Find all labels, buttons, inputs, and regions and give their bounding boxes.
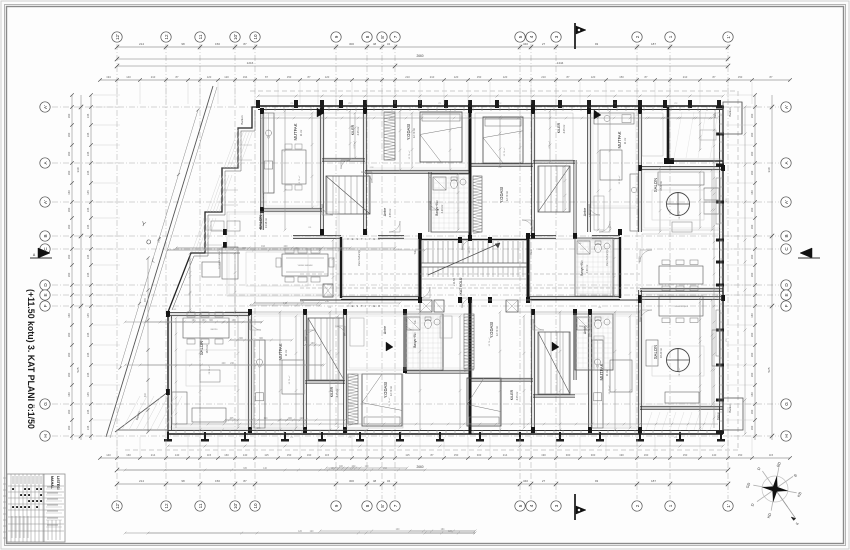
balcony hatch step3 bbox=[192, 218, 216, 252]
chandelier bottom-right salon bbox=[667, 349, 690, 372]
rug top-left salon bbox=[246, 252, 308, 286]
svg-text:160: 160 bbox=[750, 151, 754, 156]
wardrobe bottom-left bedroom bbox=[348, 374, 358, 424]
svg-text:4: 4 bbox=[529, 35, 534, 38]
svg-text:160: 160 bbox=[644, 453, 649, 457]
left apartment salon walls top bbox=[205, 252, 240, 254]
grid bubble A' right bbox=[781, 197, 791, 207]
bed bottom bedroom 2 bbox=[467, 378, 501, 426]
svg-text:4.55 m²: 4.55 m² bbox=[588, 208, 592, 217]
svg-text:4.05 m²: 4.05 m² bbox=[562, 124, 566, 133]
svg-text:5: 5 bbox=[518, 504, 523, 507]
svg-text:9: 9 bbox=[334, 504, 339, 507]
svg-text:G: G bbox=[43, 402, 48, 406]
grid bubble A right bbox=[781, 158, 791, 168]
second room insets bbox=[172, 115, 719, 426]
svg-text:190: 190 bbox=[307, 453, 312, 457]
door swing flag 3 bbox=[386, 342, 393, 351]
svg-text:160: 160 bbox=[67, 190, 71, 195]
grid bubble F left bbox=[40, 301, 50, 311]
svg-text:KILER: KILER bbox=[557, 122, 561, 133]
svg-text:28.50 m²: 28.50 m² bbox=[208, 365, 211, 374]
kitchen counter top-left bbox=[263, 113, 274, 193]
svg-text:A': A' bbox=[43, 200, 48, 204]
svg-text:190: 190 bbox=[541, 453, 546, 457]
svg-text:KILER: KILER bbox=[330, 386, 334, 397]
svg-text:300: 300 bbox=[477, 453, 482, 457]
window sill ticks bottom wall bbox=[175, 430, 177, 434]
svg-text:12: 12 bbox=[164, 34, 169, 40]
svg-text:3: 3 bbox=[554, 504, 559, 507]
rug bottom-left salon bbox=[186, 350, 238, 386]
wall x322 bbox=[320, 111, 322, 232]
svg-text:93: 93 bbox=[595, 479, 599, 483]
exterior wall along road stepped bbox=[168, 107, 258, 312]
mutfak right extra cabinets bbox=[594, 196, 604, 230]
wall x305 bottom bbox=[303, 312, 305, 430]
svg-text:160: 160 bbox=[750, 272, 754, 277]
right extension lines bbox=[726, 95, 753, 436]
svg-text:160: 160 bbox=[126, 453, 131, 457]
svg-text:48: 48 bbox=[373, 42, 377, 46]
grid bubble A left bbox=[40, 158, 50, 168]
svg-text:145: 145 bbox=[86, 352, 90, 357]
svg-text:150: 150 bbox=[287, 453, 292, 457]
right wall piers bbox=[716, 106, 724, 109]
svg-text:1216: 1216 bbox=[247, 61, 254, 65]
svg-text:Y.ODASI: Y.ODASI bbox=[383, 382, 388, 398]
svg-text:187: 187 bbox=[651, 479, 656, 483]
column markers bbox=[320, 229, 324, 235]
top dimension line 2 overall bbox=[117, 58, 728, 60]
svg-text:145: 145 bbox=[86, 132, 90, 137]
wall x250 bottom bbox=[248, 312, 250, 430]
sofa top-right salon bbox=[658, 172, 704, 185]
bath tiles bottom-right bbox=[576, 316, 612, 368]
shaft box left corridor bbox=[323, 284, 333, 297]
sofa bottom-right salon bbox=[712, 330, 720, 366]
svg-text:4.05 m²: 4.05 m² bbox=[515, 391, 519, 400]
eave dashed outline bbox=[250, 90, 738, 92]
svg-text:330: 330 bbox=[767, 167, 771, 172]
svg-text:Banyo+Wc: Banyo+Wc bbox=[435, 200, 439, 216]
svg-text:160: 160 bbox=[67, 313, 71, 318]
grid bubble D right bbox=[781, 280, 791, 290]
svg-text:1': 1' bbox=[726, 504, 731, 508]
grid bubble 5 bottom bbox=[515, 501, 525, 511]
svg-text:145: 145 bbox=[86, 254, 90, 259]
chandelier top-right salon bbox=[667, 193, 690, 216]
wall x640 top bbox=[638, 111, 640, 168]
right wall interior furniture bbox=[716, 178, 720, 224]
wall x533 bottom bbox=[531, 312, 533, 430]
shaft boxes next to core bbox=[420, 300, 432, 312]
svg-text:28.50 m²: 28.50 m² bbox=[678, 367, 681, 376]
window dim line below bottom wall bbox=[168, 445, 723, 447]
svg-text:4.05 m²: 4.05 m² bbox=[353, 141, 356, 149]
svg-text:150: 150 bbox=[738, 75, 743, 79]
svg-text:10: 10 bbox=[253, 503, 258, 509]
svg-text:H: H bbox=[43, 434, 48, 437]
svg-text:2: 2 bbox=[635, 504, 640, 507]
svg-text:525: 525 bbox=[767, 367, 771, 372]
wall x443 bath split bbox=[442, 314, 444, 370]
grid bubble C left bbox=[40, 244, 50, 254]
grid bubble 1 top bbox=[665, 32, 675, 42]
svg-text:B: B bbox=[784, 234, 789, 237]
svg-text:300: 300 bbox=[349, 42, 354, 46]
extra interior dim strings bbox=[145, 321, 262, 323]
svg-text:3: 3 bbox=[554, 35, 559, 38]
svg-text:Balkon: Balkon bbox=[716, 411, 720, 419]
top dimension line 1 bbox=[117, 46, 728, 48]
section flag bottom bbox=[574, 494, 576, 520]
svg-text:Balkon: Balkon bbox=[728, 107, 732, 117]
svg-text:87: 87 bbox=[308, 75, 311, 79]
svg-text:G: G bbox=[784, 402, 789, 406]
exterior wall right bbox=[722, 106, 724, 434]
kitchen table top-left bbox=[282, 150, 306, 184]
svg-text:160: 160 bbox=[67, 132, 71, 137]
window dim line right of right wall bbox=[744, 107, 746, 434]
svg-text:28.50 m²: 28.50 m² bbox=[678, 210, 681, 219]
grid bubble 12' bottom bbox=[112, 501, 122, 511]
svg-text:194: 194 bbox=[243, 75, 248, 79]
kat holu corridor lines bbox=[300, 273, 640, 275]
bottom dimension line 2 overall bbox=[117, 469, 728, 471]
grid bubble D left bbox=[40, 280, 50, 290]
wardrobe top-right bedroom bbox=[473, 176, 482, 232]
bath tiles top-right bbox=[576, 240, 612, 294]
svg-text:190: 190 bbox=[619, 453, 624, 457]
stair core walls bbox=[419, 238, 422, 300]
svg-text:34: 34 bbox=[387, 42, 391, 46]
svg-text:160: 160 bbox=[67, 170, 71, 175]
svg-text:8': 8' bbox=[380, 35, 385, 39]
svg-text:Balkon: Balkon bbox=[240, 115, 244, 125]
svg-text:Y.ODASI: Y.ODASI bbox=[489, 322, 494, 338]
svg-text:115: 115 bbox=[207, 453, 212, 457]
svg-text:27: 27 bbox=[542, 479, 546, 483]
svg-text:150: 150 bbox=[215, 42, 220, 46]
compass rose bbox=[753, 467, 796, 520]
svg-text:12.70 m²: 12.70 m² bbox=[488, 337, 491, 346]
svg-text:160: 160 bbox=[67, 254, 71, 259]
wall y390 kiler-stair bottom bbox=[305, 380, 345, 382]
svg-text:160: 160 bbox=[67, 113, 71, 118]
svg-text:1: 1 bbox=[668, 504, 673, 507]
corridor top wall y237 left bbox=[293, 235, 341, 237]
left extension lines bbox=[93, 95, 120, 436]
svg-text:18.5 m²: 18.5 m² bbox=[205, 344, 209, 353]
window sill ticks top wall bbox=[265, 107, 267, 111]
corridor bottom walls y298 bbox=[341, 296, 420, 298]
grid bubble A' left bbox=[40, 102, 50, 112]
grid bubble 7 top bbox=[390, 32, 400, 42]
svg-text:11 m²: 11 m² bbox=[284, 350, 288, 357]
grid bubble 1' bottom bbox=[723, 501, 733, 511]
vertical grid axes bbox=[117, 44, 728, 499]
stair bottom-left apartment bbox=[309, 318, 339, 380]
svg-text:145: 145 bbox=[86, 372, 90, 377]
grid bubble 4 bottom bbox=[526, 501, 536, 511]
svg-text:13.38 m²: 13.38 m² bbox=[264, 218, 268, 228]
door swing flag 4 bbox=[552, 342, 559, 351]
svg-text:F: F bbox=[43, 304, 48, 307]
balcony hatch top-left bbox=[224, 130, 253, 168]
top dimension line 3 bbox=[117, 65, 728, 67]
svg-text:120/220: 120/220 bbox=[263, 190, 265, 199]
svg-text:11 m²: 11 m² bbox=[605, 370, 609, 377]
svg-text:A': A' bbox=[784, 105, 789, 109]
svg-text:87: 87 bbox=[567, 75, 570, 79]
svg-text:160: 160 bbox=[67, 409, 71, 414]
svg-text:160: 160 bbox=[750, 190, 754, 195]
wardrobe bottom-right bedroom bbox=[464, 314, 474, 369]
coffee table bottom-left salon bbox=[200, 370, 220, 382]
svg-text:330: 330 bbox=[76, 167, 80, 172]
svg-text:87: 87 bbox=[243, 479, 247, 483]
svg-text:Balkon: Balkon bbox=[728, 403, 732, 413]
bed bottom bedroom 1 bbox=[362, 374, 402, 426]
svg-text:210: 210 bbox=[151, 75, 156, 79]
grid bubble 7 bottom bbox=[390, 501, 400, 511]
svg-text:160: 160 bbox=[750, 207, 754, 212]
door swing flag 1 bbox=[317, 108, 324, 117]
grid bubble 8' bottom bbox=[377, 501, 387, 511]
stair up arrow diagonal bbox=[428, 243, 500, 275]
svg-text:B: B bbox=[43, 234, 48, 237]
stair treads lower flight bbox=[423, 267, 523, 277]
svg-text:525: 525 bbox=[76, 367, 80, 372]
grid bubble 8' top bbox=[377, 32, 387, 42]
svg-text:115: 115 bbox=[325, 453, 330, 457]
svg-text:145: 145 bbox=[86, 151, 90, 156]
balcony hatch step2 bbox=[207, 175, 232, 212]
svg-text:145: 145 bbox=[86, 190, 90, 195]
wall x590 bottom bbox=[588, 312, 590, 430]
room finish insets bbox=[170, 113, 721, 428]
grid bubble F right bbox=[781, 301, 791, 311]
svg-text:160: 160 bbox=[750, 425, 754, 430]
svg-text:140: 140 bbox=[126, 75, 131, 79]
bathroom bottom-left unit bbox=[407, 317, 420, 330]
svg-text:12.70 m²: 12.70 m² bbox=[388, 397, 391, 406]
grid bubble 9 bottom bbox=[331, 501, 341, 511]
grid bubble A' left bbox=[40, 197, 50, 207]
interior dim string inside right wall bbox=[713, 114, 715, 428]
svg-text:160: 160 bbox=[750, 352, 754, 357]
svg-text:145: 145 bbox=[86, 224, 90, 229]
svg-text:145: 145 bbox=[86, 332, 90, 337]
wall x533 bbox=[531, 111, 533, 238]
svg-text:210: 210 bbox=[683, 75, 688, 79]
svg-text:214: 214 bbox=[503, 453, 508, 457]
svg-text:4.55 m²: 4.55 m² bbox=[388, 208, 392, 217]
svg-text:1': 1' bbox=[726, 35, 731, 39]
svg-text:11 m²: 11 m² bbox=[623, 138, 627, 145]
right dimension lines bbox=[754, 95, 756, 440]
svg-text:OTURMA KÖŞESİ: OTURMA KÖŞESİ bbox=[218, 251, 221, 270]
svg-text:8: 8 bbox=[365, 35, 370, 38]
svg-text:12.70 m²: 12.70 m² bbox=[495, 326, 499, 336]
svg-text:18.20 m²: 18.20 m² bbox=[659, 348, 663, 358]
svg-text:87: 87 bbox=[770, 75, 773, 79]
grid bubble 8 top bbox=[362, 32, 372, 42]
svg-text:145: 145 bbox=[86, 313, 90, 318]
corridor mid dashes bbox=[300, 287, 640, 289]
window sill ticks right wall bbox=[719, 114, 723, 116]
svg-text:150: 150 bbox=[619, 75, 624, 79]
bath tiles top-left bbox=[432, 176, 468, 230]
dining table bottom-left salon bbox=[183, 318, 229, 338]
bottom extension lines bbox=[117, 437, 752, 456]
svg-text:115: 115 bbox=[264, 453, 269, 457]
grid bubble 12' top bbox=[112, 32, 122, 42]
svg-text:160: 160 bbox=[67, 352, 71, 357]
svg-text:12': 12' bbox=[115, 34, 120, 40]
svg-text:15.73 m²: 15.73 m² bbox=[298, 175, 301, 184]
bottom dimension line 3 bbox=[117, 483, 728, 485]
bed top bedroom 1 bbox=[420, 112, 462, 162]
svg-text:145: 145 bbox=[86, 392, 90, 397]
right band wall y290 salon divider bbox=[640, 288, 723, 290]
svg-text:MUTFAK: MUTFAK bbox=[278, 343, 283, 360]
section marker right bbox=[800, 248, 812, 258]
svg-text:4.05 m²: 4.05 m² bbox=[356, 126, 360, 135]
wall mutfak-left bbox=[260, 111, 262, 230]
grid bubble B right bbox=[781, 231, 791, 241]
svg-text:120: 120 bbox=[207, 75, 212, 79]
svg-text:90/220: 90/220 bbox=[469, 246, 471, 253]
svg-text:8': 8' bbox=[380, 504, 385, 508]
grid bubble 1' top bbox=[723, 32, 733, 42]
svg-text:214: 214 bbox=[151, 453, 156, 457]
stair top-right apartment bbox=[539, 166, 569, 212]
svg-text:145: 145 bbox=[86, 272, 90, 277]
svg-text:Y.ODASI: Y.ODASI bbox=[499, 187, 504, 203]
bath tiles bottom-left bbox=[406, 316, 442, 368]
mahal listesi table bbox=[7, 474, 65, 542]
stair treads upper flight bbox=[423, 241, 523, 263]
top wall piers bbox=[256, 100, 260, 108]
svg-text:145: 145 bbox=[86, 409, 90, 414]
svg-text:48: 48 bbox=[373, 479, 377, 483]
road boundary line bbox=[106, 86, 213, 437]
salon-vestiyer divider x341 bbox=[340, 237, 342, 298]
svg-text:140: 140 bbox=[712, 453, 717, 457]
svg-text:Antre: Antre bbox=[383, 208, 387, 217]
svg-text:4.05 m²: 4.05 m² bbox=[548, 141, 551, 149]
svg-text:MAHAL: MAHAL bbox=[50, 476, 54, 490]
svg-text:10': 10' bbox=[233, 503, 238, 509]
svg-text:140: 140 bbox=[106, 453, 111, 457]
bathroom bottom-right unit bbox=[577, 317, 590, 330]
stair top-left apartment bbox=[327, 176, 369, 214]
corridor bottom second y312 bbox=[225, 311, 420, 313]
svg-text:145: 145 bbox=[86, 207, 90, 212]
svg-text:9: 9 bbox=[334, 35, 339, 38]
svg-text:10': 10' bbox=[233, 34, 238, 40]
svg-text:80/220: 80/220 bbox=[211, 329, 218, 331]
svg-text:KILER: KILER bbox=[351, 124, 355, 135]
svg-text:340: 340 bbox=[523, 479, 528, 483]
svg-text:5: 5 bbox=[518, 35, 523, 38]
left inner vertical dim near building bbox=[147, 258, 149, 432]
doors bottom band bbox=[305, 330, 316, 341]
svg-text:150: 150 bbox=[287, 75, 292, 79]
svg-text:A': A' bbox=[43, 105, 48, 109]
svg-text:YEMEK MASASI: YEMEK MASASI bbox=[297, 264, 313, 267]
grid bubble 10 bottom bbox=[250, 501, 260, 511]
svg-text:YEMEK KÖŞESİ: YEMEK KÖŞESİ bbox=[674, 305, 689, 308]
svg-text:12: 12 bbox=[164, 503, 169, 509]
svg-text:7: 7 bbox=[393, 35, 398, 38]
svg-text:MUTFAK: MUTFAK bbox=[599, 363, 604, 380]
salon right-bottom top wall bbox=[640, 296, 723, 298]
balcony top-right recessed walls bbox=[667, 107, 670, 161]
svg-text:98: 98 bbox=[181, 42, 185, 46]
dining table top-left salon bbox=[282, 254, 328, 276]
svg-text:160: 160 bbox=[224, 453, 229, 457]
svg-text:160: 160 bbox=[67, 207, 71, 212]
svg-text:87: 87 bbox=[243, 42, 247, 46]
wall y160 kiler bottom bbox=[322, 158, 365, 160]
svg-text:87: 87 bbox=[176, 75, 179, 79]
svg-text:140: 140 bbox=[243, 453, 248, 457]
right salon bottom wall y408 and balcony strip bbox=[640, 406, 723, 408]
bathroom top-right unit bbox=[577, 241, 590, 254]
grid bubble 9 top bbox=[331, 32, 341, 42]
svg-text:160: 160 bbox=[750, 372, 754, 377]
svg-text:150: 150 bbox=[738, 453, 743, 457]
corridor divider right x620 bbox=[619, 237, 621, 298]
svg-text:145: 145 bbox=[86, 425, 90, 430]
svg-text:160: 160 bbox=[67, 372, 71, 377]
svg-text:12.70 m²: 12.70 m² bbox=[412, 128, 416, 138]
svg-text:160: 160 bbox=[750, 332, 754, 337]
svg-text:87: 87 bbox=[713, 75, 716, 79]
svg-text:10: 10 bbox=[253, 34, 258, 40]
svg-text:160: 160 bbox=[750, 254, 754, 259]
svg-text:300: 300 bbox=[349, 479, 354, 483]
svg-text:2660: 2660 bbox=[416, 54, 423, 58]
kitchen counter bottom-right bbox=[592, 340, 603, 428]
svg-text:MUTFAK: MUTFAK bbox=[293, 123, 298, 140]
svg-text:Banyo+Wc: Banyo+Wc bbox=[413, 332, 417, 348]
balcony bottom-left triangle bbox=[118, 392, 168, 430]
grid bubble H left bbox=[40, 431, 50, 441]
svg-text:120: 120 bbox=[454, 75, 459, 79]
svg-text:160: 160 bbox=[750, 392, 754, 397]
svg-text:LISTESI: LISTESI bbox=[56, 476, 60, 490]
grid bubble 1 bottom bbox=[665, 501, 675, 511]
bottom mid extra cabinet bbox=[350, 318, 364, 346]
wall mutfak bottom y210 bbox=[262, 208, 322, 210]
svg-text:410: 410 bbox=[144, 392, 147, 397]
svg-text:Banyo+Wc: Banyo+Wc bbox=[580, 260, 584, 276]
svg-text:15.73 m²: 15.73 m² bbox=[608, 385, 611, 394]
svg-text:150: 150 bbox=[683, 453, 688, 457]
svg-text:Y.ODASI: Y.ODASI bbox=[406, 124, 411, 140]
wall x365 bbox=[363, 111, 365, 232]
svg-text:(+11.50 kotu) 3. KAT PLANI ö: (+11.50 kotu) 3. KAT PLANI ö:1/50 bbox=[26, 289, 36, 429]
svg-text:210: 210 bbox=[405, 75, 410, 79]
svg-text:E: E bbox=[784, 293, 789, 296]
section marker left bbox=[38, 248, 50, 258]
svg-text:11: 11 bbox=[198, 503, 203, 508]
svg-text:214: 214 bbox=[139, 479, 144, 483]
